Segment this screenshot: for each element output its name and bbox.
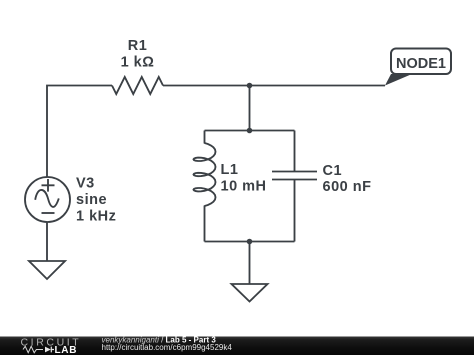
svg-text:1 kΩ: 1 kΩ bbox=[121, 55, 155, 71]
wire bbox=[46, 222, 48, 261]
node A junction top bbox=[247, 83, 253, 89]
svg-text:NODE1: NODE1 bbox=[396, 56, 446, 72]
capacitor C1 bbox=[272, 172, 317, 180]
wire bbox=[47, 86, 112, 178]
ground bbox=[29, 261, 65, 279]
svg-text:L1: L1 bbox=[221, 162, 239, 178]
node NODE1 flag bbox=[385, 49, 451, 86]
svg-text:sine: sine bbox=[76, 192, 107, 208]
svg-text:LAB: LAB bbox=[55, 345, 78, 355]
wire bbox=[249, 86, 251, 131]
wire bbox=[204, 206, 206, 242]
svg-text:C1: C1 bbox=[323, 163, 343, 179]
svg-text:600 nF: 600 nF bbox=[323, 179, 372, 195]
resistor R1 bbox=[112, 77, 163, 94]
svg-text:R1: R1 bbox=[128, 38, 148, 54]
node junction LC bottom bbox=[247, 239, 253, 245]
CircuitLab logo bbox=[21, 337, 82, 355]
svg-text:1 kHz: 1 kHz bbox=[76, 209, 116, 225]
wire bbox=[163, 85, 385, 87]
wire bbox=[205, 241, 295, 243]
svg-text:V3: V3 bbox=[76, 176, 95, 192]
wire bbox=[204, 131, 206, 144]
svg-text:10 mH: 10 mH bbox=[221, 179, 267, 195]
wire bbox=[249, 242, 251, 285]
wire bbox=[294, 131, 296, 172]
inductor L1 bbox=[194, 143, 216, 206]
svg-text:http://circuitlab.com/c6pm99g4: http://circuitlab.com/c6pm99g4529k4 bbox=[102, 343, 233, 352]
wire bbox=[294, 180, 296, 242]
credits bbox=[102, 336, 233, 353]
wire bbox=[205, 130, 295, 132]
voltage source V3 bbox=[25, 177, 70, 222]
node junction LC top bbox=[247, 128, 253, 134]
ground bbox=[232, 284, 268, 302]
